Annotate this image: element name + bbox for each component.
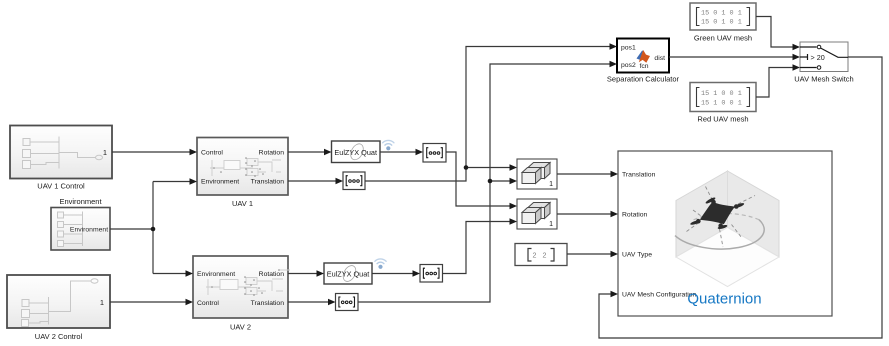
svg-text:pos1: pos1 bbox=[621, 45, 636, 52]
junction trans1 riser bbox=[464, 165, 469, 170]
arrow into quat2 bbox=[413, 270, 421, 277]
arrow into trans2 bbox=[328, 299, 336, 306]
svg-text:Environment: Environment bbox=[201, 179, 239, 186]
svg-text:Rotation: Rotation bbox=[622, 212, 648, 219]
3D room corner bbox=[676, 171, 779, 287]
translation vector block [o o o] (UAV 1 row) bbox=[343, 172, 365, 190]
svg-text:1: 1 bbox=[100, 298, 104, 307]
wire concatenate Rotation -> Quaternion.Rotation bbox=[557, 213, 611, 215]
wire EulZYX Quat 2 -> quat2 [o o o] bbox=[372, 273, 413, 275]
trajectory orbit (dashed back half) bbox=[692, 213, 759, 220]
svg-text:Control: Control bbox=[197, 300, 219, 307]
junction trans2 riser bbox=[488, 179, 493, 184]
arrow into Quaternion.UAV Type bbox=[611, 251, 619, 258]
svg-text:15 0 1 0 1: 15 0 1 0 1 bbox=[701, 10, 742, 18]
arrow into EulZYX Quat 2 bbox=[317, 270, 325, 277]
wire trans1 branch -> concatenate Translation in1 bbox=[466, 167, 510, 169]
svg-text:15 0 1 0 1: 15 0 1 0 1 bbox=[701, 19, 742, 27]
wire UAV 2.Translation -> trans2 [o o o] bbox=[288, 301, 329, 303]
matrix concatenate (Rotation) bbox=[517, 199, 557, 229]
constant Green UAV mesh bbox=[690, 3, 756, 43]
arrow into UAV 2.Control bbox=[186, 299, 194, 306]
wire switch -> Quaternion.UAV Mesh Configuration bbox=[599, 57, 882, 338]
svg-text:fcn: fcn bbox=[640, 63, 649, 70]
arrow into concatenate Rotation in2 bbox=[510, 218, 518, 225]
svg-text:UAV 2 Control: UAV 2 Control bbox=[35, 332, 83, 341]
subsystem UAV 1 bbox=[197, 138, 288, 209]
arrow into quat1 bbox=[416, 149, 424, 156]
svg-text:Translation: Translation bbox=[251, 300, 285, 307]
wire trans2 branch -> concatenate Translation in2 bbox=[490, 180, 510, 182]
svg-text:15 1 0 0 1: 15 1 0 0 1 bbox=[701, 100, 742, 108]
arrow into trans1 bbox=[336, 178, 344, 185]
wire Red UAV mesh -> switch in3 bbox=[756, 68, 793, 98]
arrow into UAV 2.Environment bbox=[186, 270, 194, 277]
svg-text:UAV 2: UAV 2 bbox=[230, 323, 251, 332]
svg-text:UAV 1 Control: UAV 1 Control bbox=[37, 182, 85, 191]
MATLAB function block Separation Calculator bbox=[607, 39, 680, 84]
wire Green UAV mesh -> switch in1 bbox=[756, 17, 793, 48]
arrow into EulZYX Quat 1 bbox=[324, 149, 332, 156]
wire UAV 1.Rotation -> EulZYX Quat 1 bbox=[288, 151, 325, 153]
wire quat2 -> concatenate Rotation in2 bbox=[443, 222, 511, 274]
svg-text:Translation: Translation bbox=[251, 179, 285, 186]
wire Separation Calculator.dist -> switch in2 bbox=[669, 56, 793, 58]
arrow into pos1 bbox=[610, 43, 618, 50]
MATLAB membrane logo bbox=[637, 50, 645, 60]
wire EulZYX Quat 1 -> [o o o] bbox=[380, 151, 416, 153]
svg-text:Environment: Environment bbox=[197, 271, 235, 278]
svg-text:Environment: Environment bbox=[59, 197, 102, 206]
svg-text:Environment: Environment bbox=[70, 227, 108, 234]
subsystem UAV 2 bbox=[193, 256, 290, 332]
wire trans1 -> pos1 (up riser) bbox=[365, 47, 610, 182]
svg-text:Translation: Translation bbox=[622, 172, 656, 179]
svg-text:Rotation: Rotation bbox=[259, 150, 285, 157]
streaming badge (wifi) UAV 1 row bbox=[383, 140, 394, 150]
svg-text:2: 2 bbox=[542, 253, 546, 261]
wire quat1 -> concatenate Rotation in1 bbox=[446, 152, 510, 206]
svg-text:EulZYX Quat: EulZYX Quat bbox=[334, 148, 377, 157]
quadcopter drone bbox=[687, 187, 756, 248]
svg-text:UAV 1: UAV 1 bbox=[232, 199, 253, 208]
arrow into concatenate Translation in1 bbox=[510, 164, 518, 171]
translation vector block [o o o] (UAV 2 row) bbox=[336, 294, 359, 311]
arrow into Quaternion.Rotation bbox=[611, 211, 619, 218]
wire UAV 2 Control -> UAV 2.Control bbox=[110, 301, 186, 303]
constant Red UAV mesh bbox=[690, 83, 756, 124]
matrix concatenate (Translation) bbox=[517, 159, 557, 189]
svg-text:2: 2 bbox=[532, 253, 536, 261]
wire Environment -> UAV 2.Environment bbox=[153, 273, 186, 275]
wire Environment -> UAV 1.Environment bbox=[153, 181, 190, 183]
arrow into switch in1 bbox=[793, 44, 801, 51]
svg-text:Control: Control bbox=[201, 150, 223, 157]
arrow into switch in2 bbox=[793, 54, 801, 61]
wire UAV 1.Translation -> trans1 [o o o] bbox=[288, 180, 336, 182]
subsystem UAV 1 Control bbox=[10, 126, 112, 191]
svg-text:> 20: > 20 bbox=[811, 53, 825, 62]
svg-text:15 1 0 0 1: 15 1 0 0 1 bbox=[701, 90, 742, 98]
block EulZYX Quat (UAV 2 row) bbox=[324, 263, 372, 284]
switch UAV Mesh Switch bbox=[794, 42, 853, 84]
quaternion vector block [o o o] (UAV 1 row) bbox=[423, 144, 446, 163]
wire trans2 -> pos2 (up riser) bbox=[358, 64, 610, 302]
arrow into switch in3 bbox=[793, 64, 801, 71]
arrow into concatenate Rotation in1 bbox=[510, 203, 518, 210]
svg-text:pos2: pos2 bbox=[621, 62, 636, 69]
wire Environment -> junction bbox=[110, 228, 153, 230]
wire concatenate Translation -> Quaternion.Translation bbox=[557, 173, 611, 175]
block EulZYX Quat (UAV 1 row) bbox=[332, 141, 381, 163]
svg-text:Quaternion: Quaternion bbox=[687, 291, 761, 308]
svg-text:EulZYX Quat: EulZYX Quat bbox=[327, 270, 370, 279]
svg-text:1: 1 bbox=[103, 148, 107, 157]
wire Environment trunk vertical bbox=[152, 182, 154, 274]
wire UAV 1 Control -> UAV 1.Control bbox=[112, 151, 190, 153]
arrow into concatenate Translation in2 bbox=[510, 178, 518, 185]
subsystem UAV 2 Control bbox=[7, 275, 110, 341]
quaternion vector block [o o o] (UAV 2 row) bbox=[420, 265, 443, 283]
svg-text:Separation Calculator: Separation Calculator bbox=[607, 75, 680, 84]
arrow into pos2 bbox=[610, 61, 618, 68]
svg-text:UAV Type: UAV Type bbox=[622, 252, 652, 259]
trajectory orbit (solid front half) bbox=[675, 220, 764, 249]
junction Environment trunk bbox=[151, 227, 156, 232]
constant [2 2] UAV Type bbox=[515, 244, 567, 266]
wire UAV 2.Rotation -> EulZYX Quat 2 bbox=[288, 273, 317, 275]
svg-text:Rotation: Rotation bbox=[259, 271, 285, 278]
streaming badge (wifi) UAV 2 row bbox=[375, 259, 386, 269]
wire [2 2] -> Quaternion.UAV Type bbox=[567, 253, 611, 255]
svg-text:Red UAV mesh: Red UAV mesh bbox=[697, 115, 748, 124]
arrow into UAV 1.Control bbox=[190, 149, 198, 156]
subsystem Environment bbox=[51, 197, 110, 250]
arrow into UAV 1.Environment bbox=[190, 178, 198, 185]
arrow into Quaternion.Translation bbox=[611, 171, 619, 178]
arrow into Quaternion.UAV Mesh Configuration bbox=[611, 291, 619, 298]
svg-text:Green UAV mesh: Green UAV mesh bbox=[694, 34, 752, 43]
UAV animation block (Quaternion) bbox=[618, 151, 832, 316]
svg-text:dist: dist bbox=[654, 55, 665, 62]
svg-text:UAV Mesh Configuration: UAV Mesh Configuration bbox=[622, 292, 697, 299]
svg-text:UAV Mesh Switch: UAV Mesh Switch bbox=[794, 75, 853, 84]
